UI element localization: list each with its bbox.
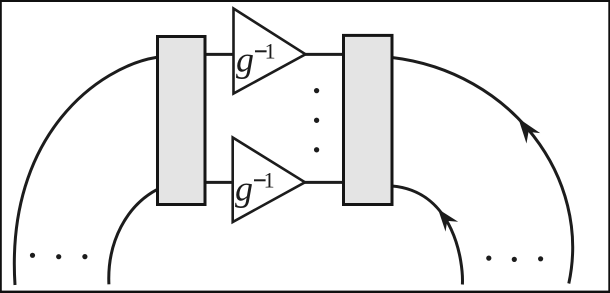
wire: outer-right arc from right box to bottom edge bbox=[392, 58, 573, 284]
arrowhead on outer-right arc bbox=[511, 113, 540, 143]
vertical ellipsis between triangles bbox=[314, 88, 319, 93]
ellipsis bottom-right bbox=[486, 256, 491, 261]
wire: left box through top triangle to right box bbox=[206, 53, 344, 56]
wire: left box through bottom triangle to right box bbox=[206, 181, 344, 184]
svg-text:1: 1 bbox=[265, 39, 276, 64]
triangle g^-1 (top) bbox=[234, 9, 306, 94]
border frame bbox=[0, 0, 610, 2]
wire: inner-right arc from right box bottom to bottom edge bbox=[392, 186, 462, 285]
ellipsis bottom-left bbox=[30, 253, 35, 258]
svg-text:g: g bbox=[236, 39, 254, 79]
box U2 (right gray rectangle) bbox=[344, 35, 393, 204]
triangle g^-1 (bottom) bbox=[233, 138, 305, 223]
svg-text:g: g bbox=[235, 168, 253, 208]
svg-text:1: 1 bbox=[264, 168, 275, 193]
box U1 (left gray rectangle) bbox=[158, 37, 206, 205]
wire: inner-left arc from left box bottom to bottom edge bbox=[109, 190, 157, 284]
arrowhead on inner-right arc bbox=[432, 204, 458, 232]
wire: outer-left arc from left box to bottom edge bbox=[14, 57, 156, 285]
